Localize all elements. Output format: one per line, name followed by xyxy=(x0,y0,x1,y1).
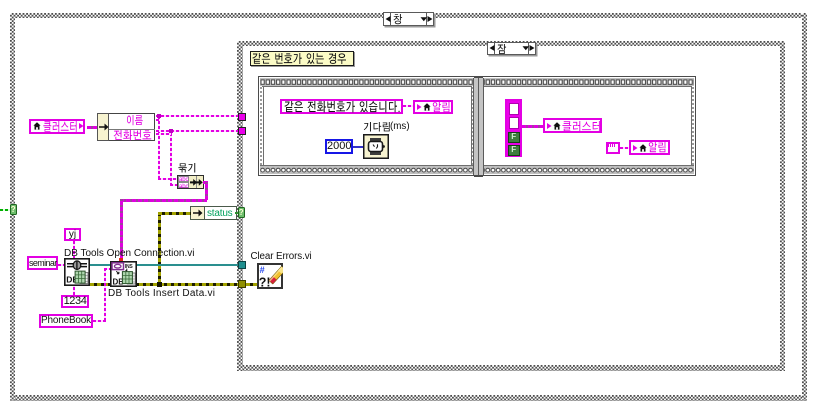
svg-text:abc: abc xyxy=(179,184,189,189)
svg-text:.: . xyxy=(397,103,400,115)
svg-text:#: # xyxy=(260,265,265,275)
svg-text:INS: INS xyxy=(125,264,134,270)
svg-text:?!: ?! xyxy=(259,275,271,289)
svg-text:abc: abc xyxy=(179,177,189,182)
